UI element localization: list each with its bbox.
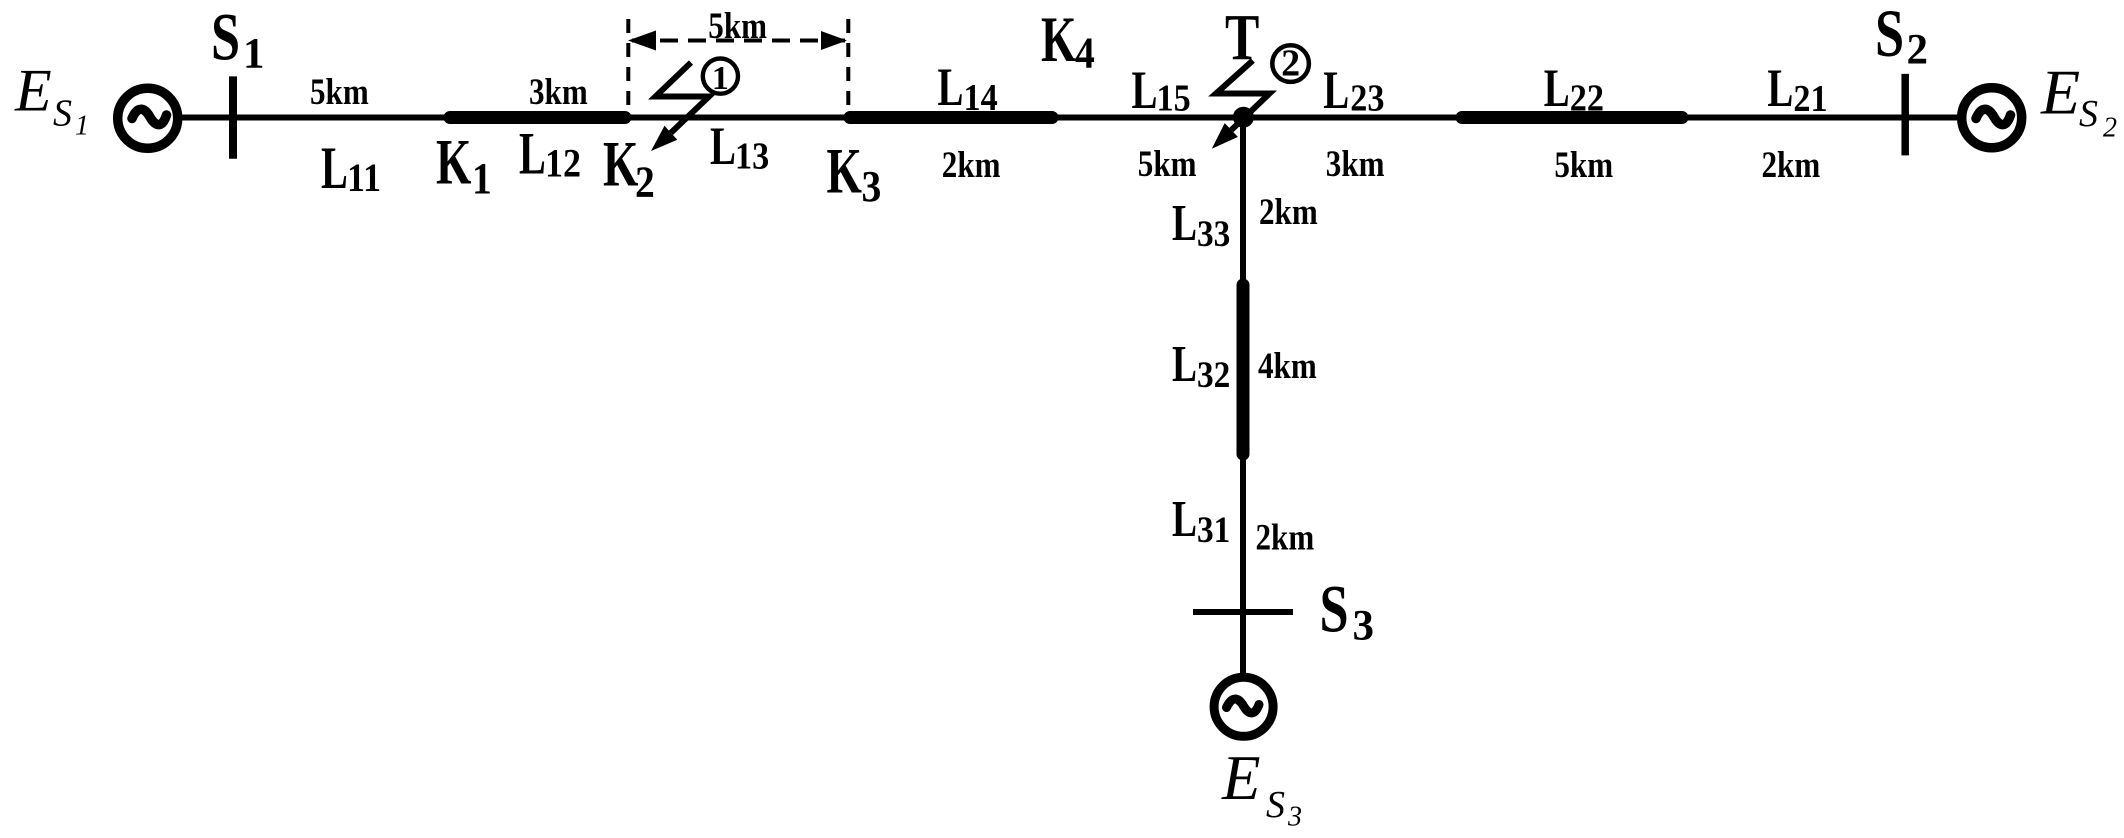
svg-text:4: 4 [1075, 29, 1095, 77]
label L11 [321, 135, 381, 202]
wire L33 (vertical) [1240, 118, 1246, 286]
label L12 [519, 121, 581, 188]
bus S2 [1901, 74, 1909, 155]
svg-text:1: 1 [243, 30, 265, 77]
label L31 [1172, 490, 1230, 550]
svg-text:K: K [1041, 4, 1077, 76]
dashed measure line left [626, 19, 630, 106]
label L13 [710, 117, 769, 177]
svg-text:2: 2 [1907, 27, 1929, 74]
wire L13 [625, 115, 850, 121]
wire L11 [181, 115, 450, 121]
svg-text:S: S [1320, 572, 1349, 647]
label L15 [1132, 61, 1191, 121]
line segment L22 (thick) [1462, 111, 1682, 124]
label K3 [827, 136, 882, 212]
fault number 1 circled [703, 59, 738, 98]
svg-text:3km: 3km [1326, 145, 1385, 185]
svg-text:12: 12 [545, 142, 581, 186]
wire L31 (vertical) [1240, 454, 1246, 612]
wire L15 [1052, 115, 1243, 121]
svg-text:5km: 5km [310, 72, 369, 112]
svg-text:E: E [14, 58, 52, 124]
svg-text:L: L [1132, 61, 1158, 121]
svg-text:K: K [603, 129, 639, 201]
svg-text:L: L [321, 135, 348, 202]
svg-text:K: K [827, 136, 863, 208]
svg-text:L: L [519, 121, 546, 188]
svg-text:22: 22 [1570, 77, 1604, 119]
svg-text:2km: 2km [1259, 193, 1318, 233]
svg-text:3: 3 [862, 163, 882, 211]
label L22 [1544, 59, 1604, 119]
svg-text:L: L [1767, 59, 1793, 119]
source label E_S2 [2040, 56, 2117, 143]
line segment L32 (thick vertical) [1237, 285, 1250, 454]
bus label S3 [1320, 572, 1375, 649]
source label E_S3 [1221, 743, 1302, 833]
bus S1 [229, 76, 237, 158]
label L23 [1323, 61, 1384, 121]
AC source circle ES3 [1214, 677, 1273, 736]
svg-text:32: 32 [1197, 354, 1230, 395]
wire to source ES2 [1905, 115, 1958, 121]
svg-text:31: 31 [1197, 509, 1230, 550]
bus S3 [1193, 609, 1293, 615]
svg-text:2: 2 [2103, 112, 2117, 143]
svg-text:S: S [1266, 784, 1285, 826]
label K1 [436, 127, 492, 204]
label L32 [1172, 335, 1230, 395]
svg-text:2: 2 [1281, 42, 1300, 84]
line segment L12 (thick) [450, 111, 625, 124]
svg-text:2km: 2km [1762, 146, 1821, 186]
bus label S1 [211, 0, 265, 77]
svg-text:L: L [710, 117, 736, 177]
svg-text:3: 3 [1353, 602, 1375, 649]
svg-text:21: 21 [1793, 77, 1827, 119]
svg-text:K: K [436, 127, 472, 199]
svg-text:L: L [1172, 490, 1197, 547]
svg-text:13: 13 [735, 135, 769, 177]
label L14 [938, 58, 998, 119]
wire L21 [1682, 115, 1902, 121]
svg-text:E: E [1221, 743, 1260, 813]
svg-text:1: 1 [75, 111, 89, 142]
label L33 [1172, 194, 1230, 254]
node T (junction dot) [1233, 107, 1254, 128]
svg-text:2km: 2km [942, 146, 1001, 186]
svg-text:S: S [2079, 93, 2098, 135]
svg-text:33: 33 [1197, 213, 1230, 254]
wire L23 [1243, 115, 1462, 121]
svg-text:E: E [2040, 56, 2080, 127]
svg-text:23: 23 [1350, 77, 1384, 119]
source label E_S1 [14, 58, 89, 142]
bus label S2 [1875, 0, 1928, 74]
svg-text:5km: 5km [1554, 146, 1613, 186]
dashed measure arrow [628, 31, 847, 51]
svg-text:1: 1 [712, 60, 729, 97]
dashed measure line right [846, 19, 850, 106]
svg-text:5km: 5km [1138, 145, 1197, 185]
fault number 2 circled [1272, 42, 1309, 84]
wire to source ES3 [1240, 612, 1246, 677]
label K4 [1041, 4, 1095, 78]
svg-text:15: 15 [1157, 77, 1191, 119]
fault bolt 2 [1212, 61, 1270, 149]
svg-text:1: 1 [472, 155, 492, 203]
svg-text:L: L [938, 58, 964, 118]
svg-text:3km: 3km [529, 72, 588, 112]
svg-text:L: L [1323, 61, 1349, 121]
svg-text:L: L [1172, 194, 1197, 251]
svg-text:2km: 2km [1256, 518, 1315, 558]
svg-text:4km: 4km [1258, 347, 1317, 387]
svg-text:L: L [1544, 59, 1570, 119]
label K2 [603, 129, 655, 207]
label L21 [1767, 59, 1827, 119]
svg-text:S: S [1875, 0, 1904, 72]
fault bolt 1 [651, 63, 709, 152]
svg-text:3: 3 [1287, 801, 1302, 832]
svg-text:L: L [1172, 335, 1197, 392]
svg-text:S: S [53, 93, 72, 135]
svg-text:5km: 5km [708, 7, 767, 47]
svg-text:11: 11 [347, 157, 381, 201]
line segment L14 (thick) [850, 111, 1052, 124]
AC source circle ES1 [118, 88, 178, 148]
svg-text:14: 14 [964, 77, 998, 119]
svg-text:S: S [211, 0, 240, 75]
svg-text:2: 2 [635, 158, 655, 206]
AC source circle ES2 [1962, 88, 2022, 148]
